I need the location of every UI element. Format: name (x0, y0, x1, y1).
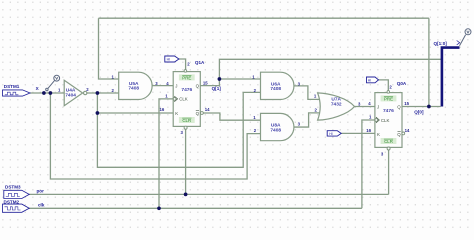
svg-text:7408: 7408 (128, 86, 139, 92)
wire FF1 CLK to clk line (159, 99, 173, 208)
wire FF2 Q to bus (402, 106, 441, 108)
HI tag FF1 PRE (165, 56, 205, 65)
HI tag FF2 K (327, 131, 341, 136)
svg-text:Q: Q (397, 132, 401, 137)
wire U6A out to U7A pin1 (294, 86, 320, 100)
node X branch junction (49, 91, 53, 95)
svg-text:7432: 7432 (331, 102, 342, 108)
svg-text:K: K (377, 132, 380, 137)
wire FF2 CLR to por (388, 150, 390, 195)
svg-text:14: 14 (405, 128, 410, 133)
wire HI to FF2 PRE (379, 80, 389, 91)
AND gate U6A 7408 (252, 72, 300, 99)
wire U4A output to U5A pin2 (87, 92, 119, 94)
svg-text:PRE: PRE (384, 96, 393, 101)
node Q0 feedback junction (427, 105, 431, 109)
svg-text:7408: 7408 (270, 127, 281, 133)
wire U8A out to U7A pin2 (294, 113, 320, 127)
svg-text:Q: Q (196, 83, 200, 88)
wire Q[1] branch to U6A pin1 (219, 78, 260, 80)
node Xbar output junction (96, 91, 100, 95)
probe V marker on bus (460, 29, 472, 46)
svg-text:Q[0]: Q[0] (414, 110, 424, 115)
wire FF1 Qbar to U8A pin1 (203, 113, 260, 120)
AND gate U5A 7408 (112, 72, 159, 99)
wire HI to FF2 K (341, 132, 375, 134)
svg-text:HI: HI (167, 58, 170, 62)
svg-text:K: K (175, 111, 178, 116)
wire por line (29, 193, 389, 195)
svg-text:Q0A: Q0A (397, 81, 407, 86)
svg-text:CLK: CLK (381, 118, 390, 123)
JK flip-flop 7476 (right, FF2) (366, 85, 410, 157)
node Xbar K-branch junction (96, 111, 100, 115)
wire Q[1] net to bus (200, 59, 441, 85)
svg-text:HI: HI (329, 132, 332, 136)
wire clk line (29, 207, 362, 209)
svg-text:7404: 7404 (65, 92, 76, 98)
wire Q[0] top feedback to U5A pin1 (99, 18, 429, 106)
svg-text:Q1A: Q1A (195, 60, 205, 65)
svg-text:J: J (175, 83, 177, 88)
DSTM3 stimulus por (4, 185, 44, 199)
node por CLR1 junction (184, 193, 188, 197)
wire FF2 CLK to clk line (362, 120, 375, 208)
svg-text:7408: 7408 (270, 86, 281, 92)
HI tag FF2 PRE (367, 77, 407, 86)
wire X from DSTM1 (30, 92, 64, 94)
wire U5A out to FF1 J (152, 85, 173, 87)
node Q1 branch junction (218, 77, 222, 81)
svg-text:14: 14 (205, 107, 210, 112)
svg-text:DSTM3: DSTM3 (5, 185, 21, 190)
JK flip-flop 7476 (left, FF1) (160, 61, 211, 135)
svg-text:CLK: CLK (179, 97, 188, 102)
svg-text:CLR: CLR (384, 139, 393, 144)
wire HI to FF1 PRE (179, 59, 186, 70)
svg-text:DSTM1: DSTM1 (4, 84, 20, 89)
svg-text:por: por (37, 188, 45, 193)
node X probe junction (42, 91, 46, 95)
svg-text:7476: 7476 (383, 108, 394, 114)
wire FF1 CLR to por (185, 129, 187, 194)
wire X branch to U8A pin2 (50, 93, 260, 179)
AND gate U8A 7408 (253, 113, 300, 140)
DSTM2 stimulus clk (3, 200, 45, 213)
DSTM1 stimulus (3, 84, 40, 96)
svg-text:16: 16 (160, 107, 165, 112)
svg-text:CLR: CLR (182, 118, 191, 123)
svg-text:Q[1:0]: Q[1:0] (434, 41, 448, 46)
svg-text:J: J (377, 104, 379, 109)
inverter U4A 7404 (58, 80, 89, 105)
svg-text:clk: clk (38, 202, 45, 207)
svg-text:PRE: PRE (182, 75, 191, 80)
probe V marker on X wire (46, 75, 60, 90)
wire Xbar branch to FF1 K and U6A pin2 (97, 92, 260, 167)
OR gate U7A 7432 (314, 93, 361, 120)
svg-text:16: 16 (366, 128, 371, 133)
svg-text:Q: Q (397, 104, 401, 109)
svg-text:HI: HI (368, 79, 371, 83)
bus Q[1:0] (442, 48, 460, 107)
svg-text:15: 15 (404, 101, 409, 106)
svg-text:Q[1]: Q[1] (212, 86, 222, 91)
svg-text:7476: 7476 (181, 87, 192, 93)
wire U7A out to FF2 J (355, 106, 375, 108)
svg-text:15: 15 (203, 81, 208, 86)
node clk CLK1 junction (157, 206, 161, 210)
svg-text:Q: Q (196, 111, 200, 116)
